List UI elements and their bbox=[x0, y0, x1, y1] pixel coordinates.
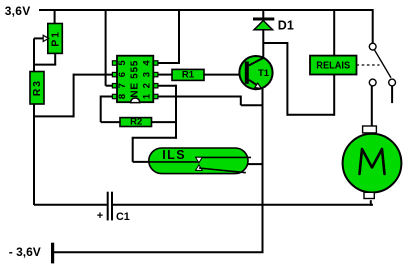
svg-text:4: 4 bbox=[142, 60, 153, 66]
op-amp/timer U1 NE 555 bbox=[112, 56, 158, 103]
wire R3 junction to IC pin6 bbox=[33, 74, 113, 118]
svg-text:2: 2 bbox=[142, 83, 153, 88]
wire R3 bottom down to C1 line bbox=[33, 104, 35, 205]
resistor R2 bbox=[120, 117, 152, 128]
wire R3 net to C1 left bbox=[34, 204, 107, 206]
wire switch to motor top bbox=[371, 86, 373, 127]
svg-text:C1: C1 bbox=[116, 211, 130, 223]
wire motor bottom to C1 line bbox=[370, 200, 372, 206]
wire IC pin1 to emitter net bbox=[158, 96, 263, 106]
ground/battery bar bbox=[51, 243, 54, 264]
wire T1 emitter down to bottom rail bbox=[262, 88, 264, 253]
wire rail to IC pin7 bbox=[106, 10, 113, 86]
wire D1 anode to T1 collector bbox=[262, 30, 264, 57]
wire P1 bottom to wiper junction bbox=[33, 53, 56, 72]
resistor R1 bbox=[172, 69, 204, 80]
svg-text:8: 8 bbox=[117, 94, 128, 99]
wire top +3.6V rail bbox=[39, 9, 373, 11]
wire rail to P1 top bbox=[54, 10, 56, 24]
wire ILS right to emitter net bbox=[248, 163, 263, 165]
wire R2 right to pin2 net bbox=[152, 121, 177, 123]
reed switch ILS bbox=[149, 148, 251, 174]
wire R1 to T1 base bbox=[204, 74, 246, 76]
wire IC pin2 to ILS left bbox=[132, 85, 177, 162]
switch S1 contacts bbox=[369, 43, 395, 103]
svg-text:7: 7 bbox=[117, 83, 128, 88]
wire dashed relay to switch arm bbox=[357, 64, 380, 66]
svg-text:T1: T1 bbox=[258, 68, 270, 79]
svg-text:3,6V: 3,6V bbox=[5, 4, 31, 18]
wire IC pin8 to R2 left bbox=[101, 96, 120, 123]
svg-text:R3: R3 bbox=[31, 79, 43, 96]
svg-text:R1: R1 bbox=[182, 69, 195, 80]
svg-text:D1: D1 bbox=[278, 18, 294, 32]
wire P1 wiper arrow bbox=[34, 35, 49, 64]
svg-text:P1: P1 bbox=[49, 30, 61, 46]
svg-text:3: 3 bbox=[142, 72, 153, 77]
wire rail to D1 cathode bbox=[262, 10, 264, 18]
svg-text:RELAIS: RELAIS bbox=[316, 60, 350, 72]
wire rail to relay top bbox=[333, 10, 335, 56]
relay K1 coil bbox=[310, 56, 357, 75]
svg-text:6: 6 bbox=[117, 72, 128, 77]
diode D1 bbox=[253, 18, 294, 33]
potentiometer P1 bbox=[48, 24, 63, 54]
resistor R3 bbox=[30, 72, 44, 105]
capacitor C1 bbox=[97, 192, 130, 223]
svg-text:- 3,6V: - 3,6V bbox=[9, 245, 41, 259]
svg-text:ILS: ILS bbox=[162, 148, 186, 162]
svg-text:NE 555: NE 555 bbox=[129, 60, 140, 98]
wire bottom -3.6V rail bbox=[53, 251, 264, 253]
svg-text:1: 1 bbox=[142, 93, 153, 99]
wire rail end down to switch common bbox=[372, 9, 374, 43]
transistor Q1/T1 bbox=[239, 56, 272, 89]
wire collector node to relay bottom bbox=[263, 42, 334, 116]
motor M bbox=[343, 126, 402, 199]
svg-text:5: 5 bbox=[117, 60, 128, 66]
svg-text:+: + bbox=[97, 210, 103, 222]
wire IC pin4 to rail bbox=[158, 10, 179, 64]
wire IC pin3 to R1 bbox=[158, 74, 172, 76]
svg-text:R2: R2 bbox=[130, 117, 142, 128]
